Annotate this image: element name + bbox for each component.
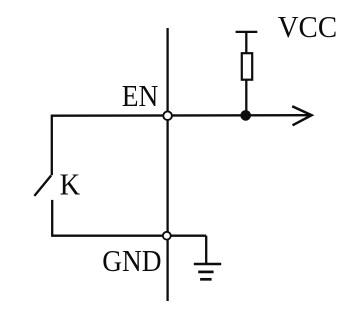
svg-text:EN: EN [122, 78, 159, 113]
svg-text:VCC: VCC [278, 9, 337, 44]
svg-text:K: K [60, 167, 81, 202]
svg-text:GND: GND [102, 243, 161, 278]
